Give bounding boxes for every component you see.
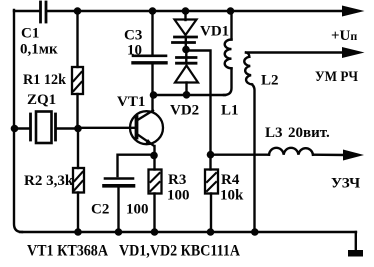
svg-text:C1: C1 [21,26,39,42]
node emitter [150,152,158,160]
svg-text:R1 12k: R1 12k [23,72,67,88]
wire collector to tank [154,94,226,96]
node C3 top [149,7,157,15]
node VD2 bottom [183,91,191,99]
transistor VT1 [130,111,163,144]
node C2 bottom [115,228,123,236]
svg-text:L1: L1 [221,103,239,119]
svg-text:R4: R4 [221,172,240,188]
capacitor C1 [39,2,42,22]
svg-text:100: 100 [167,188,190,204]
wire R4 node to L3 [211,153,270,155]
svg-text:VT1 КТ368А: VT1 КТ368А [27,243,108,260]
node crystal left on rail [11,125,19,133]
svg-text:+Uп: +Uп [331,28,357,44]
svg-text:VD1: VD1 [200,24,229,40]
node R4 bottom [207,228,215,236]
svg-text:20вит.: 20вит. [288,125,330,141]
svg-text:R3: R3 [168,172,186,188]
svg-text:C2: C2 [91,202,109,218]
ground [355,232,357,250]
inductor L1 [230,11,232,40]
svg-text:100: 100 [126,202,149,218]
node R3 bottom [151,228,159,236]
svg-text:L2: L2 [261,73,279,89]
inductor L2 [246,53,249,57]
svg-text:ZQ1: ZQ1 [27,92,56,108]
capacitor C2 [105,177,133,180]
node L1 top [227,7,235,15]
node VD1 top [182,7,190,15]
capacitor C3 [151,11,153,55]
wire bottom ground rail [20,231,356,233]
arrow +Up [342,6,365,17]
wire UZCh output [313,153,345,156]
svg-text:VT1: VT1 [117,94,145,110]
svg-text:C3: C3 [124,28,142,44]
svg-text:УЗЧ: УЗЧ [331,176,360,192]
svg-text:VD2: VD2 [170,103,199,119]
node R1 top [74,7,82,15]
svg-text:10k: 10k [220,188,244,204]
resistor R3 [153,146,155,170]
node base junction [74,125,82,133]
resistor R1 [76,11,78,67]
svg-text:10: 10 [127,43,142,59]
wire emitter to C2 [118,155,155,176]
node R4 top [207,151,215,159]
resistor R2 [77,129,79,169]
wire UM RCh output [246,51,344,53]
svg-text:L3: L3 [265,125,283,141]
svg-text:R2 3,3k: R2 3,3k [24,173,74,189]
wire top rail +Up [14,10,39,12]
inductor L3 [269,148,313,155]
wire crystal row / base wire [15,127,31,129]
node varactor centre [182,46,190,54]
node R2 bottom [74,228,82,236]
node L2 bottom [251,228,259,236]
svg-text:0,1мк: 0,1мк [20,42,58,58]
varactor VD2 [185,50,187,64]
wire varactor centre to R4 node [186,51,211,155]
svg-text:УМ РЧ: УМ РЧ [315,69,358,85]
resistor R4 [205,170,218,194]
crystal ZQ1 [29,114,32,140]
svg-text:VD1,VD2 КВС111А: VD1,VD2 КВС111А [119,243,240,260]
varactor VD1 [184,11,186,20]
node collector [150,91,158,99]
wire left rail [14,10,22,232]
